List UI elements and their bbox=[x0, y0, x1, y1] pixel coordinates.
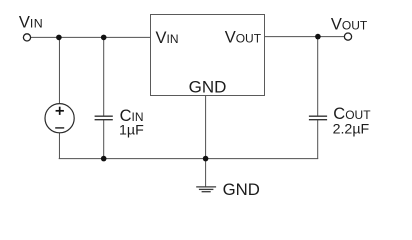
svg-text:VOUT: VOUT bbox=[225, 28, 262, 46]
svg-text:1µF: 1µF bbox=[119, 122, 144, 138]
node VOUT terminal bbox=[344, 33, 351, 40]
source V1 circle bbox=[45, 104, 74, 133]
ground bbox=[196, 187, 216, 192]
wire source vertical top bbox=[58, 37, 60, 103]
wire Cin bottom bbox=[103, 120, 105, 159]
svg-text:2.2µF: 2.2µF bbox=[333, 122, 370, 138]
junction gnd bottom bbox=[203, 156, 209, 162]
svg-text:VIN: VIN bbox=[156, 29, 179, 47]
junction Cout top bbox=[315, 34, 321, 40]
svg-text:GND: GND bbox=[189, 78, 227, 97]
wire gnd stem bbox=[205, 96, 207, 188]
op regulator U1 box bbox=[151, 15, 265, 96]
wire source vertical bottom bbox=[58, 133, 60, 159]
junction Cin top bbox=[101, 35, 107, 41]
wire Cin top bbox=[103, 37, 105, 116]
wire output top bbox=[264, 36, 344, 38]
junction input A bbox=[56, 35, 62, 41]
source plus bbox=[56, 107, 64, 115]
capacitor C2 plates bbox=[309, 116, 327, 120]
wire input top bbox=[31, 36, 151, 38]
svg-text:COUT: COUT bbox=[333, 105, 371, 123]
source minus bbox=[55, 127, 64, 129]
svg-text:GND: GND bbox=[223, 180, 260, 199]
junction Cin bottom bbox=[101, 156, 107, 162]
capacitor C1 plates bbox=[95, 116, 113, 120]
wire Cout bottom bbox=[317, 120, 319, 159]
wire bottom rail bbox=[59, 158, 319, 160]
svg-text:VIN: VIN bbox=[19, 14, 43, 32]
wire Cout top bbox=[317, 37, 319, 117]
svg-text:VOUT: VOUT bbox=[331, 16, 368, 34]
node VIN terminal bbox=[23, 34, 30, 41]
